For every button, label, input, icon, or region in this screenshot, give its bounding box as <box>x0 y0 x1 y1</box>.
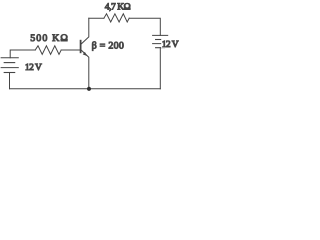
battery V2 12 V right plates <box>153 34 168 36</box>
transistor Q1 emitter <box>81 50 89 89</box>
svg-text:4,7 KΩ: 4,7 KΩ <box>105 3 131 13</box>
wire base left horizontal <box>10 50 35 58</box>
transistor Q1 base bar <box>80 41 82 53</box>
resistor R1 500 KΩ zigzag <box>35 46 61 55</box>
svg-text:12 V: 12 V <box>25 63 42 73</box>
resistor R2 4,7 KΩ zigzag <box>104 14 129 22</box>
svg-text:500 KΩ: 500 KΩ <box>30 33 69 44</box>
wire left battery to bottom rail <box>9 73 11 89</box>
label V2 value 12 V (on white box clipping plate ends) <box>161 39 180 49</box>
wire base to transistor <box>61 49 80 51</box>
wire top rail left <box>89 17 104 19</box>
transistor Q1 emitter arrow <box>83 52 88 56</box>
wire bottom rail <box>10 88 161 90</box>
node emitter junction <box>87 87 91 91</box>
wire top rail right <box>129 18 160 35</box>
wire right battery to bottom rail <box>159 48 161 89</box>
svg-text:12 V: 12 V <box>162 40 179 50</box>
transistor Q1 collector <box>81 18 89 44</box>
battery V1 12 V left plates <box>1 57 18 59</box>
svg-text:β = 200: β = 200 <box>92 41 124 52</box>
